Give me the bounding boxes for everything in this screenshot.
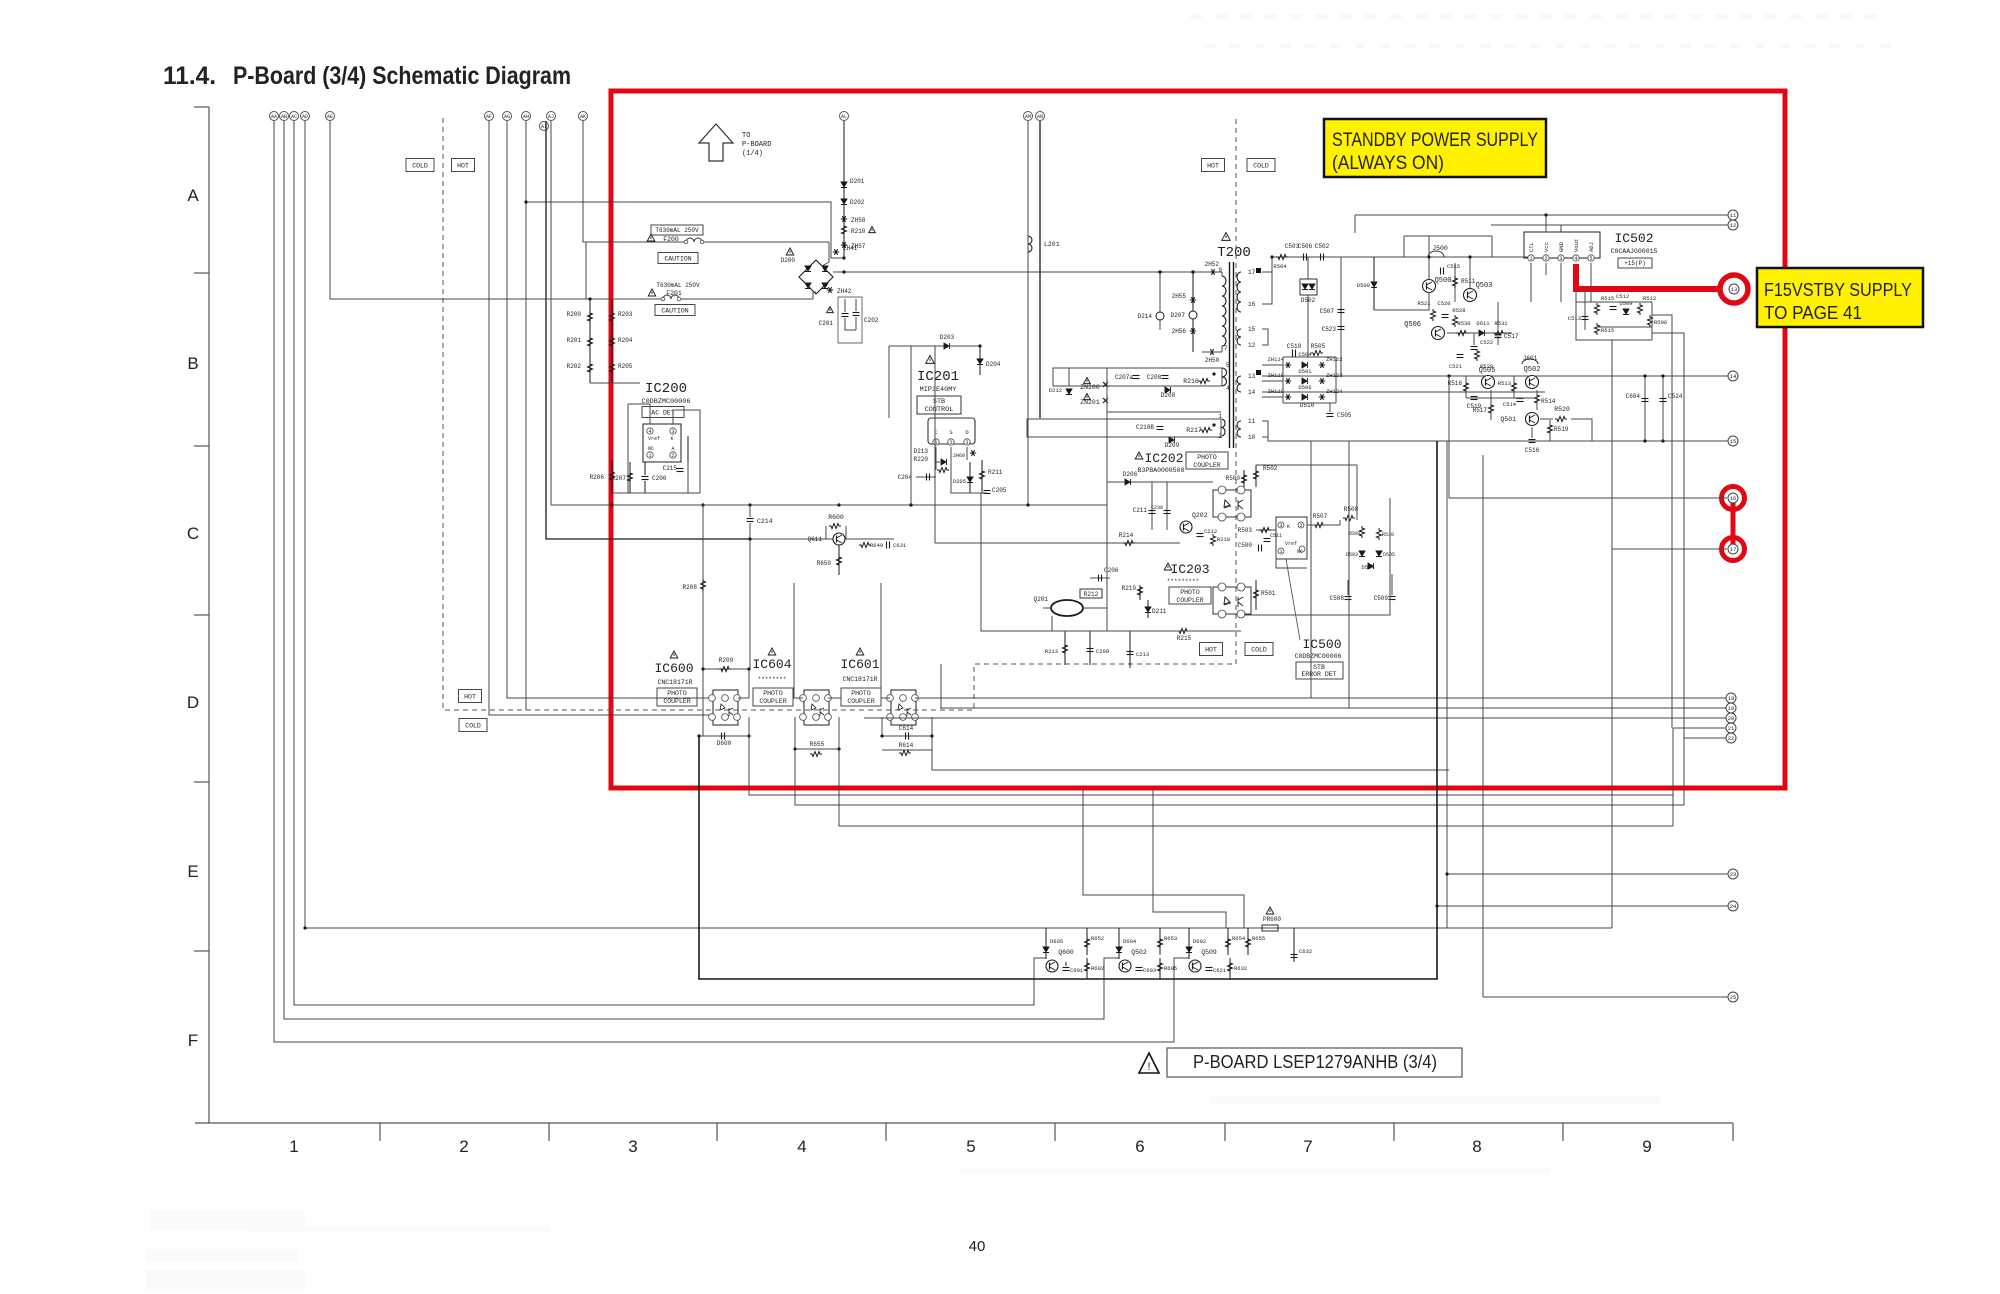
svg-text:R202: R202 <box>567 363 582 370</box>
svg-text:12: 12 <box>1248 342 1256 349</box>
svg-text:40: 40 <box>969 1238 986 1255</box>
svg-text:2: 2 <box>949 440 952 446</box>
wire R202 bottom <box>590 382 640 384</box>
svg-text:R203: R203 <box>618 311 633 318</box>
svg-text:AC: AC <box>291 114 297 120</box>
capacitor C509 <box>1389 596 1396 598</box>
svg-text:4: 4 <box>1574 256 1577 262</box>
svg-text:1: 1 <box>289 1137 298 1156</box>
svg-text:R509: R509 <box>1348 531 1360 537</box>
resistor R520 <box>1555 417 1567 422</box>
svg-text:C603: C603 <box>1143 967 1156 974</box>
wire AH <box>525 121 527 710</box>
svg-text:TO: TO <box>742 132 750 140</box>
resistor R632 <box>1228 961 1233 973</box>
svg-text:P-BOARD: P-BOARD <box>742 141 771 149</box>
svg-text:Vref: Vref <box>1285 541 1297 547</box>
svg-text:D201: D201 <box>850 178 865 185</box>
resistor R506 <box>1648 315 1653 327</box>
wire R214 row <box>935 542 1180 544</box>
svg-text:K: K <box>670 436 673 442</box>
svg-text:R505: R505 <box>1311 343 1326 350</box>
svg-text:R204: R204 <box>618 337 633 344</box>
wire rail 11 <box>1262 421 1268 437</box>
svg-text:1: 1 <box>648 453 651 459</box>
svg-text:1: 1 <box>1529 256 1532 262</box>
svg-text:IC604: IC604 <box>752 657 791 672</box>
capacitor C514 <box>1517 398 1524 400</box>
resistor R503 <box>1256 529 1276 531</box>
svg-text:2H56: 2H56 <box>1172 328 1187 335</box>
resistor R655b <box>1246 937 1251 949</box>
resistor R501 <box>1255 580 1257 610</box>
svg-text:ZN200: ZN200 <box>1080 384 1100 391</box>
secondary winding <box>1237 272 1241 312</box>
label COLD mid-right <box>1245 643 1273 656</box>
zener ZN201 <box>1084 394 1091 400</box>
verticals to bottom <box>1446 441 1448 928</box>
svg-text:P-Board (3/4) Schematic Diagra: P-Board (3/4) Schematic Diagram <box>233 62 571 90</box>
diode chain D201-ZH57 <box>843 121 845 258</box>
svg-text:D611: D611 <box>1476 320 1490 327</box>
svg-text:D213: D213 <box>914 448 929 455</box>
svg-text:C502: C502 <box>1315 243 1330 250</box>
wire AD <box>305 121 1447 928</box>
svg-text:HOT: HOT <box>464 693 476 700</box>
resistor R207 <box>629 462 631 493</box>
resistor R517 <box>1489 403 1494 415</box>
svg-text:D600: D600 <box>717 740 732 747</box>
svg-text:R501: R501 <box>1261 590 1276 597</box>
svg-text:AD: AD <box>302 114 308 120</box>
svg-text:CAUTION: CAUTION <box>661 307 688 314</box>
svg-text:K: K <box>1287 524 1290 530</box>
svg-text:R602: R602 <box>1091 965 1104 972</box>
svg-text:C524: C524 <box>1668 393 1683 400</box>
svg-text:!: ! <box>1147 1061 1150 1073</box>
wire terminal 11 <box>1355 214 1728 216</box>
capacitor C214 <box>749 505 751 517</box>
svg-text:(1/4): (1/4) <box>742 150 763 158</box>
svg-text:D203: D203 <box>940 334 955 341</box>
wire vertical 1311 <box>1310 441 1312 698</box>
op-amp IC200 body <box>643 424 681 462</box>
svg-text:B3PBA0000508: B3PBA0000508 <box>1138 467 1185 474</box>
svg-text:AM: AM <box>1025 114 1031 120</box>
svg-text:C520: C520 <box>1437 300 1450 307</box>
IC202 label <box>1135 452 1143 459</box>
resistor R650 <box>838 545 840 575</box>
wire IC502 top <box>1545 215 1547 232</box>
diode D605 <box>1045 928 1047 959</box>
diode block D502 <box>1300 279 1317 295</box>
wire AI <box>546 121 750 539</box>
aux wires 2 <box>1039 418 1041 419</box>
matrix frame <box>1283 356 1336 358</box>
svg-text:D211: D211 <box>1152 608 1167 615</box>
svg-text:Q611: Q611 <box>808 536 823 543</box>
transistor Q503 <box>1464 289 1477 302</box>
capacitors C604 C524 <box>1644 376 1646 441</box>
capacitor C516 <box>1529 439 1536 441</box>
terminal 13 <box>1729 284 1739 294</box>
svg-text:C513: C513 <box>1568 315 1581 322</box>
svg-text:PR600: PR600 <box>1263 916 1281 923</box>
svg-text:TO PAGE 41: TO PAGE 41 <box>1764 303 1862 323</box>
resistor R519 <box>1548 423 1553 435</box>
svg-text:15: 15 <box>1730 438 1737 445</box>
svg-text:2H52: 2H52 <box>1205 261 1220 268</box>
IC502 body <box>1524 232 1600 258</box>
svg-text:ZH124: ZH124 <box>1326 388 1343 395</box>
transistor Q600 <box>1046 960 1058 972</box>
svg-text:C215: C215 <box>663 465 678 472</box>
svg-text:R504: R504 <box>1273 263 1287 270</box>
svg-text:IC202: IC202 <box>1144 451 1183 466</box>
wire F200 to AK <box>585 242 587 299</box>
terminal 16 <box>1728 493 1738 503</box>
svg-text:11: 11 <box>1248 418 1256 425</box>
svg-text:R508: R508 <box>1344 506 1359 513</box>
svg-text:Q600: Q600 <box>1058 949 1074 956</box>
inductor L201 <box>1028 236 1032 252</box>
svg-text:PHOTO: PHOTO <box>851 690 871 697</box>
svg-text:1: 1 <box>1279 549 1282 555</box>
svg-text:R649: R649 <box>870 542 883 549</box>
aux block wires <box>1052 368 1054 386</box>
svg-text:J601: J601 <box>1523 355 1538 362</box>
svg-text:C631: C631 <box>893 542 907 549</box>
svg-text:COUPLER: COUPLER <box>759 698 786 705</box>
svg-text:11.4.: 11.4. <box>163 62 216 90</box>
svg-text:C207a: C207a <box>1115 374 1133 381</box>
capacitor C230 <box>1166 482 1168 530</box>
aux winding rect C210B R217 <box>1027 419 1221 437</box>
wires right block <box>1576 289 1652 340</box>
spark gap 2H60 <box>970 450 976 456</box>
capacitor C211 <box>1151 482 1153 530</box>
wire to 24 <box>1437 905 1728 907</box>
IC604 label <box>768 648 776 655</box>
svg-text:C511: C511 <box>1270 533 1282 539</box>
svg-text:15: 15 <box>1248 326 1256 333</box>
svg-text:R502: R502 <box>1263 465 1278 472</box>
svg-text:C512: C512 <box>1616 293 1629 300</box>
svg-text:3: 3 <box>1279 523 1282 529</box>
terminal 12 <box>1728 220 1738 230</box>
capacitor C621 <box>1206 967 1213 969</box>
capacitor C515 <box>1440 268 1442 275</box>
wire vertical 1349 <box>1348 441 1350 708</box>
svg-text:8: 8 <box>1472 1137 1481 1156</box>
resistor R513 <box>1512 381 1517 393</box>
wire AH branch <box>526 202 844 258</box>
label HOT mid-right <box>1200 643 1223 656</box>
grid bottom axis <box>195 1122 1733 1124</box>
svg-text:Q202: Q202 <box>1192 512 1208 519</box>
svg-text:16: 16 <box>1730 495 1737 502</box>
svg-text:COUPLER: COUPLER <box>1193 462 1220 469</box>
svg-text:R211: R211 <box>988 469 1003 476</box>
row R530 D611 R531 <box>1447 332 1512 334</box>
capacitor C519 <box>1471 396 1478 398</box>
capacitor C517 <box>1497 302 1499 345</box>
svg-text:2: 2 <box>1218 433 1222 440</box>
transistor Q502 <box>1526 376 1539 389</box>
svg-text:1: 1 <box>1218 413 1222 420</box>
resistor PR600 <box>1266 907 1274 914</box>
svg-text:C632: C632 <box>1299 948 1312 955</box>
aux winding rect C207a C208 R216 <box>1053 368 1222 386</box>
terminal 15 <box>1728 436 1738 446</box>
capacitor C632 <box>1293 928 1295 962</box>
svg-text:Q201: Q201 <box>1034 596 1049 603</box>
svg-text:Vref: Vref <box>648 436 660 442</box>
svg-text:D204: D204 <box>986 361 1001 368</box>
svg-text:C509: C509 <box>1374 595 1389 602</box>
svg-text:2H55: 2H55 <box>1172 293 1187 300</box>
diode D203 line <box>889 345 980 347</box>
svg-text:IC601: IC601 <box>840 657 879 672</box>
resistors R509 R510 <box>1360 526 1365 538</box>
svg-text:ZH58: ZH58 <box>851 217 866 224</box>
diode D509 <box>1623 309 1629 315</box>
svg-text:+15(P): +15(P) <box>1624 260 1646 267</box>
svg-text:C212: C212 <box>1204 528 1217 535</box>
svg-text:3: 3 <box>628 1137 637 1156</box>
diode D604 <box>1118 928 1120 959</box>
svg-text:ZH123: ZH123 <box>1326 372 1343 379</box>
svg-text:Vcc: Vcc <box>1543 242 1550 252</box>
transformer T200 <box>1222 233 1231 241</box>
svg-text:ERROR DET: ERROR DET <box>1301 671 1336 678</box>
faint artifact dashes <box>1190 14 1202 19</box>
svg-text:D501: D501 <box>1298 368 1312 375</box>
svg-text:F15VSTBY SUPPLY: F15VSTBY SUPPLY <box>1764 280 1912 300</box>
wire rail 13 to terminal 14 <box>1262 375 1728 377</box>
svg-text:R654: R654 <box>1232 935 1246 942</box>
wire R502 rail <box>1256 464 1357 466</box>
svg-text:Q503: Q503 <box>1476 282 1493 290</box>
caption warning triangle <box>1139 1053 1159 1073</box>
capacitor C200 <box>644 462 646 475</box>
svg-text:HOT: HOT <box>1207 162 1219 169</box>
transistor Q501 <box>1526 413 1539 426</box>
capacitor C215 <box>687 436 689 462</box>
wire AJ <box>550 121 552 505</box>
terminal 25 <box>1728 992 1738 1002</box>
svg-text:CNC18171R: CNC18171R <box>842 676 877 683</box>
svg-text:AF: AF <box>486 114 492 120</box>
svg-text:COUPLER: COUPLER <box>1176 597 1203 604</box>
svg-text:C521: C521 <box>1449 363 1463 370</box>
isolation dashed line left <box>443 118 1236 710</box>
spark gap ZH52 <box>1210 269 1216 275</box>
wire AK <box>583 121 586 242</box>
svg-text:24: 24 <box>1730 903 1737 910</box>
svg-text:12: 12 <box>1730 222 1737 229</box>
svg-text:R514: R514 <box>1541 398 1556 405</box>
svg-text:R650: R650 <box>817 560 832 567</box>
wire bridge bottom <box>813 292 816 299</box>
svg-text:COLD: COLD <box>412 162 428 169</box>
svg-text:NC: NC <box>1297 549 1303 555</box>
transistor Q202 <box>1180 521 1192 533</box>
svg-text:14: 14 <box>1730 373 1737 380</box>
transistor Q506 <box>1432 327 1445 340</box>
svg-text:PHOTO: PHOTO <box>667 690 687 697</box>
svg-text:HOT: HOT <box>457 162 469 169</box>
svg-text:C200: C200 <box>652 475 667 482</box>
bridge rectifier D200 <box>799 260 833 294</box>
wire AF <box>489 121 710 715</box>
svg-text:Q502: Q502 <box>1131 949 1147 956</box>
transistor Q611 and R600 <box>750 538 894 540</box>
photo coupler IC604 unit <box>804 690 829 725</box>
svg-text:Q500: Q500 <box>1435 277 1452 285</box>
resistor stack R203-R205 <box>611 299 613 383</box>
red highlight rectangle <box>611 91 1785 788</box>
wire sec 15 12 <box>1262 329 1268 345</box>
svg-text:R217: R217 <box>1186 427 1202 434</box>
svg-text:F201: F201 <box>666 290 682 297</box>
svg-text:23: 23 <box>1730 871 1737 878</box>
wire bridge top <box>822 242 829 266</box>
svg-text:ADJ: ADJ <box>1588 242 1595 252</box>
svg-text:2: 2 <box>1299 523 1302 529</box>
capacitor C212 <box>1197 533 1204 535</box>
svg-text:R513: R513 <box>1498 380 1511 387</box>
svg-text:R219: R219 <box>1122 585 1137 592</box>
wire mid bus y505 <box>551 504 1107 506</box>
label HOT top-left <box>452 159 475 172</box>
svg-text:C506: C506 <box>1298 243 1313 250</box>
connector circles AF-AK <box>485 112 494 121</box>
capacitors C201 C202 <box>844 299 846 312</box>
svg-text:4: 4 <box>1226 385 1230 392</box>
svg-text:C213: C213 <box>1136 651 1149 658</box>
svg-text:R506: R506 <box>1654 319 1667 326</box>
spark gap 2H50 <box>1209 349 1215 355</box>
svg-text:4: 4 <box>648 429 651 435</box>
resistor R218 <box>1211 534 1216 546</box>
svg-text:********: ******** <box>758 676 787 683</box>
IC601 label <box>856 648 864 655</box>
fuse F200 line <box>586 241 686 243</box>
svg-text:R653: R653 <box>1164 935 1177 942</box>
svg-text:R500: R500 <box>1226 475 1241 482</box>
resistor R602 <box>1085 961 1090 973</box>
svg-text:NC: NC <box>648 446 654 452</box>
svg-text:STB: STB <box>1313 664 1325 671</box>
diode matrix ZH114-ZH124 <box>1262 364 1283 366</box>
wires IC201 pins down <box>935 447 937 470</box>
resistor R515b <box>1595 323 1600 335</box>
svg-text:R531: R531 <box>1494 320 1508 327</box>
resistor R206 <box>611 460 613 493</box>
arrow TO P-BOARD (1/4) <box>699 124 733 161</box>
svg-text:T630mAL 250V: T630mAL 250V <box>655 227 699 234</box>
svg-text:D205: D205 <box>953 478 966 485</box>
resistor R514 <box>1535 393 1540 405</box>
zener ZN200 <box>1084 378 1091 384</box>
svg-text:R512: R512 <box>1643 295 1656 302</box>
terminals 18-22 <box>1726 693 1736 703</box>
red ring terminal 13 <box>1720 275 1748 303</box>
svg-text:R503: R503 <box>1238 527 1253 534</box>
svg-text:R519: R519 <box>1554 426 1569 433</box>
svg-text:2: 2 <box>1544 256 1547 262</box>
diodes D503 D505 D504 <box>1359 551 1365 557</box>
svg-text:IC200: IC200 <box>645 381 687 397</box>
IC203 label <box>1164 563 1172 570</box>
svg-text:A: A <box>671 446 674 452</box>
fuse F200 labels <box>651 225 703 235</box>
svg-text:PHOTO: PHOTO <box>1180 589 1200 596</box>
svg-text:E: E <box>187 862 198 881</box>
capacitor C205 <box>984 490 991 492</box>
svg-text:7: 7 <box>1303 1137 1312 1156</box>
svg-text:AJ: AJ <box>548 114 554 120</box>
wire to 25 <box>1483 996 1728 998</box>
wire AE <box>329 121 331 299</box>
svg-text:D209: D209 <box>1165 442 1180 449</box>
svg-text:R510: R510 <box>1382 532 1394 538</box>
svg-text:COUPLER: COUPLER <box>847 698 874 705</box>
svg-text:C0CAAJG00015: C0CAAJG00015 <box>1611 248 1658 255</box>
caption box P-BOARD <box>1167 1048 1462 1077</box>
resistor R511 <box>1454 263 1456 302</box>
svg-text:AK: AK <box>580 114 586 120</box>
transistor Q505 <box>1482 376 1495 389</box>
diode D500 <box>1373 257 1375 310</box>
svg-text:(ALWAYS ON): (ALWAYS ON) <box>1332 153 1444 174</box>
svg-text:5: 5 <box>1226 362 1230 369</box>
svg-text:R507: R507 <box>1313 513 1328 520</box>
highlight F15VSTBY SUPPLY box <box>1757 268 1923 327</box>
label HOT top-right <box>1202 159 1225 172</box>
svg-text:18: 18 <box>1728 695 1735 702</box>
row R515 C512 R512 <box>1595 303 1600 315</box>
capacitor C500 <box>1258 545 1260 552</box>
svg-text:C507: C507 <box>1320 308 1335 315</box>
svg-text:IC502: IC502 <box>1614 231 1653 246</box>
svg-text:2H50: 2H50 <box>1205 357 1220 364</box>
svg-text:R208: R208 <box>683 584 698 591</box>
svg-text:7: 7 <box>1224 345 1228 352</box>
wire AG <box>507 121 710 698</box>
wires Q500 net <box>1404 235 1492 237</box>
capacitor C505 <box>1327 413 1334 415</box>
leader line IC500 <box>1286 559 1300 640</box>
svg-text:D207: D207 <box>1171 312 1186 319</box>
svg-text:2: 2 <box>459 1137 468 1156</box>
svg-text:AC DET: AC DET <box>651 409 675 416</box>
svg-text:R530: R530 <box>1457 320 1470 327</box>
svg-text:IC600: IC600 <box>654 661 693 676</box>
svg-text:AG: AG <box>504 114 510 120</box>
svg-text:GND: GND <box>1558 241 1565 252</box>
svg-text:13: 13 <box>1731 286 1738 293</box>
svg-text:C0DBZMC00006: C0DBZMC00006 <box>642 398 691 406</box>
IC201 label <box>926 356 935 364</box>
highlight STANDBY POWER SUPPLY box <box>1324 119 1546 177</box>
svg-text:CONTROL: CONTROL <box>925 406 954 414</box>
capacitor D600 <box>699 735 749 737</box>
svg-text:D206: D206 <box>1123 471 1138 478</box>
svg-text:C230: C230 <box>1151 505 1163 511</box>
svg-text:10: 10 <box>1248 434 1256 441</box>
